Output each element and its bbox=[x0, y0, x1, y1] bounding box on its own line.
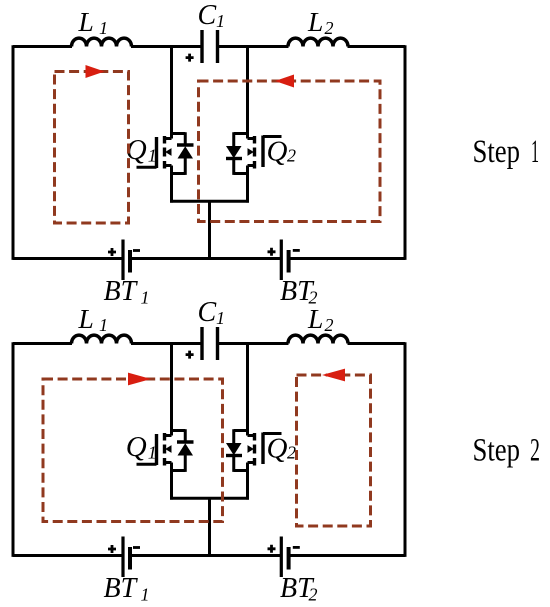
svg-text:1: 1 bbox=[531, 134, 539, 170]
svg-text:Step: Step bbox=[473, 134, 521, 170]
svg-text:Step: Step bbox=[473, 432, 521, 468]
svg-text:2: 2 bbox=[530, 432, 540, 468]
